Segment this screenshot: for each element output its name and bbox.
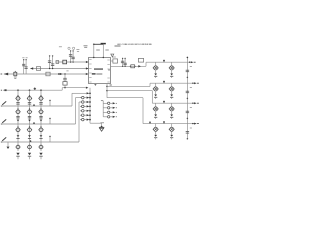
wire U1 bottom vertical x107 — [106, 84, 108, 98]
component small on wire B left — [4, 89, 6, 91]
cell row2 col x41 — [40, 108, 41, 109]
wire stem x94 down to U1 — [93, 44, 95, 57]
wire B upper run to J1 — [62, 87, 86, 89]
wire east y97.7 — [107, 97, 143, 99]
label U1 internal text — [92, 73, 96, 75]
wire row bus 1 bottom-left grid — [1, 105, 72, 107]
wire A main net y74 — [4, 73, 89, 75]
label pin name left — [84, 45, 88, 47]
wire VCC stem to U1 pin — [102, 44, 104, 58]
wire net y68.5 — [30, 68, 88, 70]
diode D2 on wire y66.3 — [131, 65, 135, 68]
svg-text:LED CUBE 4X4X4 MCU DRIVER BD: LED CUBE 4X4X4 MCU DRIVER BD — [117, 44, 152, 46]
label pin name right — [105, 49, 108, 51]
connector J2 pin 3 — [103, 111, 107, 113]
node tap of C5 box — [64, 87, 65, 88]
arrowhead into U1 y68.5 — [86, 67, 89, 69]
cell row3 col x18 — [17, 126, 18, 127]
resistor R1 on wire A — [46, 72, 50, 76]
capacitor C9 on wire A — [25, 60, 27, 74]
stub dots column x50 — [49, 100, 51, 106]
connector J1 pin 7 — [89, 119, 91, 121]
node junction at x94 — [93, 43, 95, 45]
capacitor C8 on wire A — [23, 60, 25, 74]
wire J1 to ground run — [90, 122, 102, 124]
label C1 C2 circles — [68, 47, 70, 49]
resistor R3 box — [36, 67, 40, 71]
wire riser x144 to bus4 — [142, 98, 144, 124]
wire B left dash — [1, 89, 2, 91]
wire riser bus2 to J1 — [75, 98, 77, 124]
wire U1 right y66.3 run — [111, 65, 147, 67]
node mid junction bus y123.6 — [163, 121, 165, 123]
ground flag bottom left x8 — [7, 142, 9, 147]
transistor cell col x171.7 bus y83.2 — [171, 83, 173, 87]
transistor cell col x171.7 bus y62.2 — [171, 62, 173, 66]
connector J1 pin 1 — [89, 92, 91, 94]
label U1 pin mark right — [108, 69, 110, 71]
arrowhead wire B into J1 — [86, 87, 89, 89]
wire crystal net y62 — [56, 61, 89, 63]
cell hanging row col x29.5 — [29, 142, 31, 151]
cell top row col x41 — [40, 95, 41, 96]
component box on bus1 start — [138, 58, 143, 62]
pin stubs U1 left inside — [89, 59, 91, 61]
pin stubs U1 right inside — [107, 59, 109, 61]
wire top y44 to second pin — [94, 43, 104, 45]
node mid junction bus y83.2 — [163, 81, 165, 83]
wire row bus 2 bottom-left grid — [1, 123, 76, 125]
node U1 bottom pin marks — [94, 84, 96, 86]
wire right bus1 y62.2 — [146, 61, 193, 63]
connector J1 vertical bus — [89, 88, 91, 124]
transistor cell col x155.7 bus y62.2 — [155, 62, 157, 66]
label right of caps — [76, 48, 79, 50]
capacitor C1 vertical — [70, 51, 72, 62]
net label flag bus 3 — [2, 137, 6, 141]
wire right bus3 y103.2 — [152, 102, 196, 104]
wire east y86.4 — [107, 85, 150, 87]
connector J1 pin 2 — [89, 97, 91, 99]
node above ground — [101, 126, 103, 128]
capacitor C4 vertical — [52, 56, 54, 69]
resistor R2 small box — [56, 61, 59, 64]
wire riser bus1 from y66.3 — [145, 62, 147, 66]
wire column x188.2 vertical — [186, 57, 188, 138]
component box below C5 — [63, 82, 67, 86]
cell row2 col x29.5 — [29, 108, 30, 109]
label crystal top-left — [59, 46, 62, 48]
arrowhead wire A into U1 — [86, 73, 89, 75]
wire stub to net B — [64, 85, 66, 88]
cell row3 col x29.5 — [29, 126, 30, 127]
wire riser bus1 to J1 — [71, 93, 73, 106]
arrowhead net label left y68.5 — [30, 67, 33, 69]
power flag on U1 top right — [111, 54, 114, 57]
capacitor cell col x188 bus y123.6 — [190, 127, 192, 129]
wire riser x150 to bus2 — [149, 83, 151, 86]
wire column riser x29.5 — [29, 90, 31, 142]
cell hanging row col x18 — [17, 142, 19, 151]
wire row bus 3 bottom-left grid — [1, 141, 79, 143]
node wire A junction — [58, 73, 60, 75]
connector J1 pin 5 — [89, 110, 91, 112]
capacitor C3 vertical — [49, 56, 51, 69]
cell top row col x18 — [17, 95, 18, 96]
transistor cell col x171.7 bus y103.2 — [171, 103, 173, 107]
power rail VCC bar — [101, 43, 106, 45]
cell hanging row col x41 — [40, 142, 42, 151]
capacitor C7 — [124, 58, 126, 66]
node cap junctions y66.3 — [122, 66, 123, 67]
capacitor C2 vertical — [72, 51, 74, 62]
arrowhead into U1 y62 — [86, 61, 89, 63]
wire column riser x18 — [17, 90, 19, 142]
net label flag bus 2 — [2, 119, 6, 123]
label above C8 C9 — [22, 57, 24, 59]
node bus1 junction tick — [33, 104, 35, 106]
diode D1 glyph above wire B — [33, 87, 36, 90]
arrowhead mid wire A — [60, 73, 63, 75]
wire east y90.6 — [107, 90, 152, 92]
wire short dash segment — [115, 45, 121, 47]
op-amp U1 MCU box — [89, 58, 111, 84]
label above box — [113, 56, 116, 58]
wire U1 right y61 stub — [111, 60, 114, 62]
transistor cell col x155.7 bus y123.6 — [155, 124, 157, 128]
connector J1 pin 3 — [89, 101, 91, 103]
net connector at right end y62.2 — [189, 62, 190, 63]
component box right of U1 — [113, 59, 118, 63]
capacitor cell col x188 bus y103.2 — [190, 107, 192, 109]
transistor cell col x155.7 bus y83.2 — [155, 83, 157, 87]
transistor cell col x171.7 bus y123.6 — [171, 124, 173, 128]
arrowhead on wire y66.3 — [138, 65, 141, 67]
capacitor cell col x188 bus y83.2 — [190, 87, 192, 89]
cell row2 col x18 — [17, 108, 18, 109]
connector J1 pin 6 — [89, 114, 91, 116]
wire right bus4 y123.6 — [143, 123, 197, 125]
net label flag bus 1 — [2, 101, 6, 105]
transistor cell col x155.7 bus y103.2 — [155, 103, 157, 107]
connector J2 pin 1 — [103, 102, 107, 104]
wire riser x152.3 to bus3 — [151, 91, 153, 104]
node mid junction bus y62.2 — [163, 60, 165, 62]
wire B net y90 — [3, 89, 62, 91]
net connector at right end y83.2 — [192, 83, 193, 84]
node U1 top pins — [93, 57, 94, 58]
label under FB1 — [14, 76, 17, 78]
connector J2 pin 4 — [103, 116, 107, 118]
ground symbol — [99, 126, 104, 128]
net connector at right end y103.2 — [192, 103, 193, 104]
cell top row col x29.5 — [29, 95, 30, 96]
net connector at right end y123.6 — [192, 123, 193, 124]
capacitor cell col x188 bus y62.2 — [190, 66, 192, 68]
label between wires — [66, 70, 68, 72]
wire stub left margin — [1, 73, 3, 75]
node mid junction bus y103.2 — [163, 101, 165, 103]
label below J2 — [100, 122, 104, 124]
wire riser bus3 to J1 — [78, 102, 80, 142]
arrowhead net left end wire A — [4, 73, 8, 76]
wire right bus2 y83.2 — [150, 82, 197, 84]
node bus2 junction tick — [33, 122, 35, 124]
wire B jog up — [61, 88, 63, 91]
ferrite bead FB1 — [14, 72, 17, 75]
node branch junction x65 — [64, 73, 66, 75]
connector J2 pin 2 — [103, 107, 107, 109]
crystal X1 — [63, 60, 67, 64]
node junctions y68.5 — [49, 68, 50, 69]
label U1 internal part number bar — [94, 69, 103, 70]
capacitor C6 — [122, 58, 124, 66]
node column junctions on wire B — [17, 89, 19, 91]
connector J1 pin 4 — [89, 106, 91, 108]
node crystal cap junctions — [70, 61, 71, 62]
cell row3 col x41 — [40, 126, 41, 127]
label pin name mid — [96, 49, 100, 51]
connector J2 vertical — [102, 101, 104, 117]
capacitor C5 branch — [64, 74, 66, 78]
wire column riser x41 — [40, 90, 42, 142]
node bus3 junction tick — [30, 140, 32, 142]
node junction bus4 x150 — [149, 121, 151, 123]
